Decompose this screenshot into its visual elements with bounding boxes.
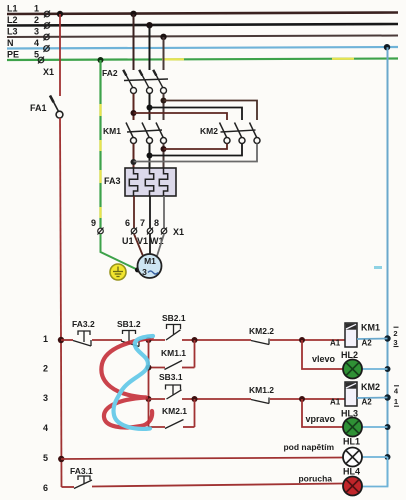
svg-text:pod napětím: pod napětím <box>283 442 334 452</box>
svg-text:KM2.1: KM2.1 <box>162 406 187 416</box>
svg-text:FA2: FA2 <box>102 68 118 78</box>
svg-text:FA3.1: FA3.1 <box>70 466 93 476</box>
svg-text:3: 3 <box>142 267 147 277</box>
svg-text:vpravo: vpravo <box>305 414 335 424</box>
svg-text:KM2: KM2 <box>361 382 380 392</box>
svg-text:4: 4 <box>43 423 48 433</box>
svg-text:6: 6 <box>43 483 48 493</box>
svg-text:2: 2 <box>43 364 48 374</box>
svg-text:3: 3 <box>34 27 39 37</box>
svg-text:L3: L3 <box>7 27 18 37</box>
svg-text:FA1: FA1 <box>30 103 47 113</box>
svg-text:1: 1 <box>43 334 48 344</box>
svg-text:L2: L2 <box>7 15 18 25</box>
svg-text:9: 9 <box>91 218 96 228</box>
svg-text:A2: A2 <box>362 339 373 348</box>
svg-text:1: 1 <box>34 4 39 14</box>
svg-text:X1: X1 <box>173 227 184 237</box>
svg-text:SB1.2: SB1.2 <box>117 319 141 329</box>
svg-text:U1: U1 <box>122 236 134 246</box>
svg-text:HL3: HL3 <box>341 409 358 419</box>
svg-text:3: 3 <box>43 393 48 403</box>
svg-text:3: 3 <box>393 338 397 347</box>
svg-text:FA3: FA3 <box>104 176 121 186</box>
svg-text:vlevo: vlevo <box>312 354 336 364</box>
svg-text:N: N <box>7 38 14 48</box>
svg-text:FA3.2: FA3.2 <box>72 319 95 329</box>
svg-text:KM1: KM1 <box>361 323 380 333</box>
svg-text:5: 5 <box>43 453 48 463</box>
svg-text:KM2.2: KM2.2 <box>249 326 274 336</box>
svg-text:6: 6 <box>125 218 130 228</box>
svg-text:KM1: KM1 <box>103 126 121 136</box>
svg-text:A1: A1 <box>330 339 341 348</box>
svg-text:8: 8 <box>154 218 159 228</box>
svg-text:KM1.1: KM1.1 <box>161 348 186 358</box>
svg-text:7: 7 <box>140 218 145 228</box>
svg-text:A2: A2 <box>362 398 373 407</box>
svg-text:HL4: HL4 <box>343 467 360 477</box>
svg-text:SB3.1: SB3.1 <box>159 372 183 382</box>
svg-text:KM1.2: KM1.2 <box>249 385 274 395</box>
svg-text:HL2: HL2 <box>341 350 358 360</box>
svg-text:4: 4 <box>34 38 39 48</box>
svg-text:KM2: KM2 <box>200 126 218 136</box>
svg-text:L1: L1 <box>7 4 18 14</box>
svg-text:SB2.1: SB2.1 <box>162 313 186 323</box>
svg-text:M1: M1 <box>144 256 156 266</box>
svg-text:2: 2 <box>34 15 39 25</box>
svg-text:HL1: HL1 <box>343 437 360 447</box>
svg-text:porucha: porucha <box>298 474 332 484</box>
svg-text:2: 2 <box>393 329 397 338</box>
svg-text:A1: A1 <box>330 398 341 407</box>
svg-text:X1: X1 <box>43 67 54 77</box>
svg-text:PE: PE <box>7 50 19 60</box>
svg-text:1: 1 <box>394 397 398 406</box>
